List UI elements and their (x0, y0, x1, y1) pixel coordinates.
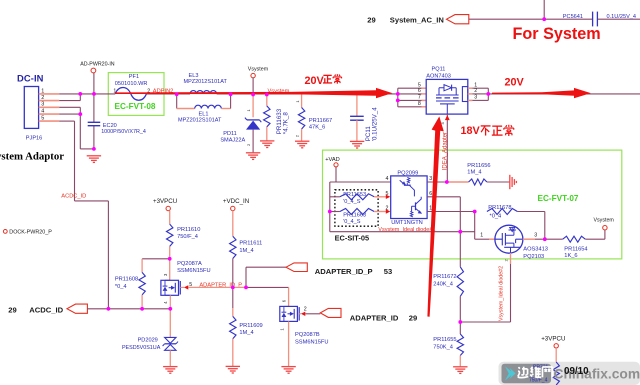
output rail 20V wire (488, 93, 640, 95)
svg-text:MPZ2012S101AT: MPZ2012S101AT (178, 118, 222, 124)
svg-text:29: 29 (8, 306, 16, 315)
wire PQ2099 pin1 to AOS pin1 (427, 211, 475, 213)
main rail wire fuse to EL3 (146, 93, 190, 95)
watermark logo chevron (505, 366, 514, 380)
svg-text:PQ11: PQ11 (432, 67, 446, 73)
svg-text:1000P/50V/X7R_4: 1000P/50V/X7R_4 (101, 129, 146, 135)
resistor PR11655 (459, 322, 461, 334)
resistor PR11672 (457, 267, 463, 296)
svg-text:750K_4: 750K_4 (433, 344, 453, 350)
svg-text:Vsystem_Ideal diode#1: Vsystem_Ideal diode#1 (378, 227, 435, 233)
svg-text:PJP16: PJP16 (26, 135, 42, 141)
svg-text:09/10: 09/10 (564, 366, 589, 377)
svg-text:'0.1U/25V_4: '0.1U/25V_4 (371, 107, 378, 141)
svg-text:UMT1NGTN: UMT1NGTN (391, 220, 423, 226)
svg-text:PQ2087A: PQ2087A (177, 261, 202, 267)
svg-text:3: 3 (429, 176, 432, 182)
svg-text:IDEA_Adapter: IDEA_Adapter (442, 132, 448, 170)
svg-text:For System: For System (513, 25, 601, 43)
wire ADAPTER_ID_P net (188, 286, 246, 288)
svg-text:+VDC_IN: +VDC_IN (223, 198, 249, 205)
svg-text:7: 7 (418, 95, 421, 101)
ground under PR11633 (260, 141, 274, 148)
svg-text:6: 6 (429, 191, 432, 197)
TVS diode PD11 SMAJ22A (252, 94, 254, 117)
svg-text:1K_6: 1K_6 (564, 253, 577, 259)
junction on System_AC_IN wire (542, 17, 546, 21)
PQ11 internal P-MOSFET symbol (444, 85, 452, 91)
resistor PR11663 (330, 211, 340, 213)
svg-text:ADAPTER_ID_P: ADAPTER_ID_P (315, 267, 373, 276)
wire PQ2099 pin6 jog down (427, 196, 460, 198)
svg-text:0501010.WR: 0501010.WR (115, 81, 148, 87)
svg-text:20V: 20V (305, 75, 325, 87)
svg-text:29: 29 (367, 16, 375, 25)
dashed box EC-SIT-05 (335, 190, 378, 226)
svg-text:PF1: PF1 (129, 74, 139, 80)
svg-text:MPZ2012S101AT: MPZ2012S101AT (184, 79, 228, 85)
wire +VAD to PQ2099 pin4 (335, 167, 337, 182)
ferrite bead EL1 parallel branch (176, 94, 178, 109)
wire pin4 down to ground junction (59, 113, 80, 115)
svg-text:PR11611: PR11611 (239, 241, 262, 247)
red pin-entry arrow PQ2087A gate pin5 (180, 286, 184, 288)
svg-text:ACDC_ID: ACDC_ID (29, 306, 63, 315)
capacitor EC20 (88, 121, 101, 123)
svg-text:1M_4: 1M_4 (467, 170, 481, 176)
svg-text:18V: 18V (461, 125, 481, 137)
svg-text:240K_4: 240K_4 (433, 282, 453, 288)
resistor PR11608 (139, 272, 145, 295)
svg-text:+3VPCU: +3VPCU (541, 335, 565, 342)
svg-text:PR11654: PR11654 (564, 246, 587, 252)
junction dots (78, 92, 82, 96)
svg-text:20V: 20V (505, 77, 525, 89)
svg-text:2: 2 (304, 306, 307, 312)
svg-text:EC-FVT-07: EC-FVT-07 (538, 194, 579, 203)
svg-text:ADAPTER_ID: ADAPTER_ID (350, 314, 399, 323)
PQ2099 internal dual transistor symbol (407, 177, 410, 183)
green box EC-FVT-08 (108, 73, 164, 116)
svg-text:*0_4: *0_4 (490, 213, 502, 219)
net port ADAPTER_ID_P connector (286, 263, 307, 272)
wire pin5 to ACDC_ID net (59, 120, 74, 122)
resistor PR11667 (301, 94, 303, 108)
svg-text:*4.7K_8: *4.7K_8 (283, 112, 290, 135)
svg-text:4: 4 (386, 176, 389, 182)
svg-text:PQ2103: PQ2103 (523, 254, 544, 260)
capacitor PC11 (356, 94, 358, 116)
main rail wire EL3 to PQ11 bus (217, 93, 398, 95)
svg-text:+VAD: +VAD (325, 157, 340, 163)
svg-text:750/F_4: 750/F_4 (529, 377, 548, 383)
svg-text:System_AC_IN: System_AC_IN (390, 16, 444, 25)
wire PR11678 to AOS pin3 node (517, 211, 544, 213)
AOS3413 gate stem down (510, 253, 512, 264)
svg-text:53: 53 (384, 267, 392, 276)
svg-text:0.1U/25V_4: 0.1U/25V_4 (607, 14, 637, 20)
watermark CJK 迅维网 (518, 367, 519, 368)
svg-text:PD11: PD11 (223, 131, 237, 137)
svg-text:PESD5V0S1UA: PESD5V0S1UA (122, 345, 161, 351)
resistor PR11656 to ground (447, 181, 469, 183)
wire to PR11608 branch (142, 258, 170, 260)
svg-text:PR11672: PR11672 (433, 274, 456, 280)
wire AOS pin3 to PR11654 (523, 238, 535, 240)
wire bus to AOS gate net horizontal (330, 231, 475, 233)
svg-text:Vsystem: Vsystem (594, 217, 615, 223)
svg-text:8: 8 (418, 101, 421, 107)
svg-text:29: 29 (409, 314, 417, 323)
net port DOCK-PWR20_P (3, 230, 7, 234)
svg-text:PR11653: PR11653 (343, 192, 366, 198)
ground under DC-IN (87, 156, 101, 163)
transistor AOS3413 PQ2103 (495, 225, 523, 253)
ground under PR11609 (226, 366, 240, 373)
svg-text:AOS3413: AOS3413 (523, 247, 548, 253)
net port ADAPTER_ID connector (320, 308, 341, 317)
svg-text:*0_4: *0_4 (115, 284, 127, 290)
svg-text:EC-SIT-05: EC-SIT-05 (335, 233, 370, 242)
resistor PR11633 (266, 94, 268, 106)
transistor PQ2087B SSM6N15FU (288, 287, 290, 306)
svg-text:PD2029: PD2029 (138, 337, 158, 343)
svg-text:AON7403: AON7403 (426, 73, 451, 79)
resistor PR11653 (330, 196, 340, 198)
wire long vertical to PR11672 (459, 232, 461, 267)
PQ11 right pin bus (468, 87, 473, 89)
svg-text:PR11609: PR11609 (239, 323, 262, 329)
svg-text:6: 6 (418, 88, 421, 94)
wire gate to ADAPTER_ID connector (305, 313, 320, 315)
svg-text:PR11667: PR11667 (309, 118, 332, 124)
PJP16 pin stub wires (39, 93, 60, 95)
red pin-entry arrows at PQ2099 pins 5 and 2 (386, 195, 391, 199)
wire pin2 to pin1 rail (59, 100, 80, 102)
ground under PQ2087B (281, 367, 295, 374)
red pin-entry arrow PQ2087B gate pin2 (299, 313, 301, 315)
ground under PD11 (246, 153, 260, 160)
ground under PD2029 (163, 367, 177, 374)
svg-text:SSM6N15FU: SSM6N15FU (295, 339, 329, 345)
green box EC-FVT-07 (323, 150, 622, 259)
svg-text:+3VPCU: +3VPCU (153, 198, 177, 205)
svg-text:PC5641: PC5641 (563, 14, 583, 20)
svg-text:47K_6: 47K_6 (309, 124, 325, 130)
PQ11 gate stem down to PQ2099 (446, 114, 448, 182)
red pin-entry arrow at PQ11 gate (445, 115, 450, 120)
svg-text:EC-FVT-08: EC-FVT-08 (115, 102, 156, 111)
connector PJP16 body (24, 87, 38, 129)
svg-text:'0_4_S: '0_4_S (343, 199, 361, 205)
wire AD-PWR20-IN down to rail and EC20 (93, 73, 95, 94)
resistor PR11654 (563, 236, 586, 242)
TVS diode PD2029 PESD5V0S1UA (169, 309, 171, 338)
resistor PR11611 (232, 211, 234, 237)
svg-text:PR11608: PR11608 (115, 276, 138, 282)
annotation thick red arrow left (115, 88, 392, 98)
capacitor PC5641 (592, 12, 594, 27)
resistor PR11610 (169, 211, 171, 224)
wire System_AC_IN to PC5641 (469, 18, 593, 20)
ground under PC11 (350, 141, 364, 148)
watermark band (499, 362, 640, 385)
main rail wire pin1 to fuse (59, 93, 115, 95)
svg-text:Vsystem: Vsystem (248, 67, 269, 73)
svg-text:1: 1 (480, 232, 483, 238)
ground under PR11667 (295, 141, 309, 148)
svg-text:System Adaptor: System Adaptor (0, 150, 64, 162)
svg-text:PR11678: PR11678 (488, 205, 511, 211)
svg-text:1M_4: 1M_4 (239, 330, 253, 336)
resistor PR11678 (487, 209, 518, 215)
svg-text:AD-PWR20-IN: AD-PWR20-IN (80, 62, 115, 68)
svg-text:DOCK-PWR20_P: DOCK-PWR20_P (9, 230, 52, 236)
PQ11 left pin bus (397, 88, 399, 107)
svg-text:PQ2087B: PQ2087B (295, 332, 320, 338)
sideways ground right of PR11656 (510, 175, 517, 189)
wire resistor bus down left of dashed box (329, 182, 331, 232)
PQ11 drain tab (462, 87, 467, 102)
svg-text:ACDC_ID: ACDC_ID (61, 193, 86, 199)
resistor PR11731 bottom right (553, 362, 559, 385)
svg-text:750/F_4: 750/F_4 (177, 234, 198, 240)
resistor PR11731 bottom right stub (555, 348, 557, 362)
svg-text:2: 2 (474, 88, 477, 94)
wire gate row to junction (460, 321, 510, 323)
svg-text:Vsystem_Ideal diode#2: Vsystem_Ideal diode#2 (499, 266, 505, 321)
svg-text:3: 3 (534, 232, 537, 238)
svg-text:1M_4: 1M_4 (239, 248, 253, 254)
resistor PR11609 (232, 287, 234, 308)
svg-text:3: 3 (474, 95, 477, 101)
ground under PR11655 (453, 367, 467, 374)
wire PQ2099 pin3 to gate junction (427, 181, 447, 183)
svg-text:PR11610: PR11610 (177, 227, 200, 233)
watermark logo box (502, 364, 552, 383)
svg-text:PR11655: PR11655 (433, 337, 456, 343)
wire pin3 to pin4 rail (59, 106, 80, 108)
svg-text:PR11656: PR11656 (467, 163, 490, 169)
annotation big red arrow IDEA_Adapter (427, 116, 443, 316)
net port Vsystem right (604, 230, 606, 239)
svg-text:'0_4_S: '0_4_S (343, 219, 361, 225)
svg-text:SSM6N15FU: SSM6N15FU (177, 268, 211, 274)
svg-text:DC-IN: DC-IN (17, 72, 44, 83)
annotation CJK 正常 after 20V (323, 74, 331, 76)
annotation CJK 不正常 after 18V (481, 125, 491, 127)
svg-text:PR11663: PR11663 (343, 213, 366, 219)
wire ACDC_ID row (87, 308, 170, 310)
svg-text:SMAJ22A: SMAJ22A (220, 138, 245, 144)
annotation thick red arrow right (492, 88, 591, 98)
